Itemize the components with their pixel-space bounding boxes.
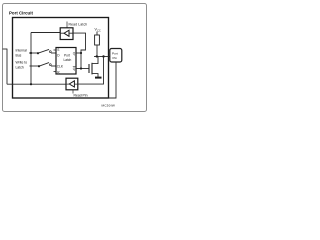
wire switch S2 to CLK pin (51, 65, 56, 67)
wire pin node (94, 56, 110, 58)
ground (95, 77, 102, 79)
svg-text:Bus: Bus (16, 54, 22, 58)
wire read latch buffer output (31, 32, 60, 34)
leader tick read pin (72, 90, 74, 94)
svg-text:Read Latch: Read Latch (69, 23, 88, 27)
buffer U2 inner stubs (60, 32, 73, 34)
wire Q-bar to gate (76, 68, 89, 70)
transistor Q1 source lead (92, 74, 98, 77)
buffer U3 read pin box (66, 78, 78, 90)
pin S stub (54, 49, 57, 51)
buffer U2 triangle (64, 30, 69, 36)
junction dot Q-bar (80, 67, 82, 69)
svg-text:Latch: Latch (16, 66, 24, 70)
switch S1 pivot dot (37, 52, 39, 54)
switch S2 lever (39, 63, 49, 67)
junction dot bus tap on D wire (30, 52, 32, 54)
wire switch S1 to D pin (51, 52, 56, 54)
wire pin lead down (109, 62, 117, 98)
wire bus tap vertical (30, 33, 32, 85)
svg-text:Write to: Write to (16, 61, 28, 65)
switch S2 contact (49, 64, 51, 66)
switch S1 lever (38, 49, 49, 53)
svg-text:S: S (57, 48, 59, 52)
switch S2 pivot dot (38, 65, 40, 67)
leader tick read latch (66, 22, 68, 28)
junction dot Q (80, 52, 82, 54)
svg-text:Port Circuit: Port Circuit (9, 11, 33, 16)
pin R stub (54, 71, 57, 73)
svg-text:CLK: CLK (57, 64, 64, 68)
buffer U3 inner stubs (66, 83, 78, 85)
junction bus tap / read-pin wire (30, 83, 32, 85)
inner box (port circuit boundary) (13, 18, 109, 99)
wire internal bus to D (left part) (29, 52, 38, 54)
transistor Q1 gate bar (88, 64, 90, 73)
internal bus vertical line (6, 49, 8, 85)
wire buffer input from Q (73, 33, 86, 68)
svg-text:CC: CC (97, 30, 101, 33)
transistor Q1 drain lead (92, 57, 98, 64)
resistor bottom lead (96, 45, 98, 57)
node internal bus stub (3, 48, 8, 50)
switch S1 contact (49, 51, 51, 53)
svg-text:Pin: Pin (113, 56, 118, 60)
buffer U2 read latch box (60, 28, 73, 40)
junction dot read-pin tap (102, 55, 104, 57)
wire Q stub (76, 52, 81, 54)
buffer U3 triangle (69, 81, 74, 87)
outer frame (3, 4, 147, 112)
resistor R1 (95, 35, 100, 45)
svg-text:Read Pin: Read Pin (74, 94, 88, 98)
svg-text:Port: Port (64, 54, 70, 58)
svg-text:Internal: Internal (16, 49, 28, 53)
wire read-pin buffer output to bus (7, 83, 66, 85)
flip-flop U1 port latch box (56, 48, 76, 75)
svg-text:MC50IW: MC50IW (102, 104, 116, 108)
wire read pin buffer input (78, 57, 104, 85)
junction dot resistor/drain (96, 55, 98, 57)
Vcc lead (96, 32, 98, 36)
svg-text:Latch: Latch (64, 58, 72, 62)
wire write-to-latch to CLK (left part) (30, 65, 40, 67)
port pin box (110, 49, 122, 63)
transistor Q1 channel bar (91, 63, 93, 75)
